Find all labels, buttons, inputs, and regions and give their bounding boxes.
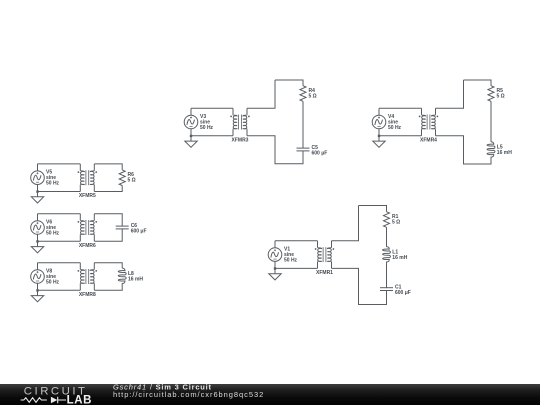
capacitor C1 bbox=[380, 288, 393, 291]
svg-text:XFMR8: XFMR8 bbox=[79, 292, 96, 298]
wire secondary bottom bbox=[94, 285, 122, 291]
wire primary bottom bbox=[38, 289, 81, 291]
voltage source V4 bbox=[372, 108, 386, 137]
svg-text:http://circuitlab.com/cxr6bng8: http://circuitlab.com/cxr6bng8qc532 bbox=[113, 390, 264, 399]
wire primary top bbox=[275, 240, 318, 242]
svg-text:LAB: LAB bbox=[67, 394, 92, 405]
wire secondary top stub bbox=[247, 80, 275, 108]
resistor R6 bbox=[119, 170, 125, 186]
svg-text:5 Ω: 5 Ω bbox=[309, 94, 317, 100]
voltage source V3 bbox=[184, 108, 198, 137]
svg-text:XFMR6: XFMR6 bbox=[79, 243, 96, 249]
svg-text:50 Hz: 50 Hz bbox=[284, 258, 298, 264]
svg-text:5 Ω: 5 Ω bbox=[392, 220, 400, 226]
inductor L5 bbox=[487, 142, 495, 159]
wire primary bottom bbox=[38, 240, 81, 242]
svg-text:16 mH: 16 mH bbox=[128, 277, 143, 283]
wire loop bottom bbox=[247, 136, 303, 164]
svg-text:5 Ω: 5 Ω bbox=[128, 178, 136, 184]
wire secondary bottom bbox=[94, 186, 122, 192]
wire loop top bbox=[464, 80, 492, 86]
inductor L8 bbox=[118, 268, 126, 285]
svg-text:16 mH: 16 mH bbox=[497, 150, 512, 156]
wire loop top bbox=[359, 206, 387, 212]
svg-text:XFMR1: XFMR1 bbox=[316, 270, 333, 276]
voltage source V6 bbox=[31, 214, 45, 243]
wire primary bottom bbox=[275, 267, 318, 269]
footer background bbox=[0, 384, 540, 405]
svg-text:600 μF: 600 μF bbox=[312, 150, 328, 156]
svg-text:XFMR5: XFMR5 bbox=[79, 193, 96, 199]
transformer XFMR6 bbox=[78, 214, 98, 242]
svg-text:XFMR3: XFMR3 bbox=[232, 138, 249, 144]
wire secondary loop bbox=[94, 263, 122, 269]
transformer XFMR3 bbox=[230, 108, 250, 136]
resistor R4 bbox=[300, 86, 306, 102]
wire secondary loop bbox=[94, 164, 122, 170]
wire primary top bbox=[38, 163, 81, 165]
logo diode bbox=[51, 397, 58, 404]
ground below V4 bbox=[373, 136, 385, 148]
capacitor C5 bbox=[297, 148, 310, 151]
wire secondary top stub bbox=[332, 206, 359, 241]
capacitor C6 bbox=[116, 226, 129, 229]
transformer XFMR8 bbox=[78, 263, 98, 291]
ground below V5 bbox=[31, 192, 43, 204]
svg-text:50 Hz: 50 Hz bbox=[46, 280, 60, 286]
svg-text:5 Ω: 5 Ω bbox=[497, 94, 505, 100]
wire secondary bottom bbox=[94, 229, 122, 241]
transformer XFMR1 bbox=[315, 241, 335, 269]
svg-text:600 μF: 600 μF bbox=[131, 228, 147, 234]
svg-text:16 mH: 16 mH bbox=[392, 255, 407, 261]
inductor L1 bbox=[383, 247, 391, 264]
svg-text:600 μF: 600 μF bbox=[395, 290, 411, 296]
transformer XFMR4 bbox=[419, 108, 439, 136]
ground below V6 bbox=[31, 241, 43, 253]
wire R1 to L1 bbox=[386, 227, 388, 247]
wire L1 to C1 bbox=[386, 263, 388, 288]
voltage source V8 bbox=[31, 263, 45, 292]
resistor R1 bbox=[384, 212, 390, 228]
logo resistor zigzag bbox=[21, 398, 47, 403]
wire secondary top stub bbox=[436, 80, 464, 108]
wire R4 to C5 bbox=[302, 101, 304, 148]
wire primary top bbox=[379, 107, 422, 109]
wire primary bottom bbox=[379, 135, 422, 137]
ground below V3 bbox=[185, 136, 197, 148]
transformer XFMR5 bbox=[78, 164, 98, 192]
voltage source V5 bbox=[31, 164, 45, 193]
svg-text:50 Hz: 50 Hz bbox=[200, 125, 214, 131]
wire secondary loop bbox=[94, 214, 122, 226]
svg-text:XFMR4: XFMR4 bbox=[420, 138, 437, 144]
wire primary top bbox=[38, 213, 81, 215]
wire loop bottom bbox=[436, 136, 492, 164]
svg-text:50 Hz: 50 Hz bbox=[46, 231, 60, 237]
wire primary top bbox=[38, 262, 81, 264]
wire primary top bbox=[191, 107, 233, 109]
voltage source V1 bbox=[268, 241, 282, 270]
wire loop bottom bbox=[332, 268, 387, 304]
wire loop top bbox=[275, 80, 303, 86]
ground below V8 bbox=[31, 290, 43, 302]
resistor R5 bbox=[488, 86, 494, 102]
svg-text:50 Hz: 50 Hz bbox=[388, 125, 402, 131]
wire R5 to L5 bbox=[490, 101, 492, 142]
wire primary bottom bbox=[38, 191, 81, 193]
svg-text:50 Hz: 50 Hz bbox=[46, 181, 60, 187]
ground below V1 bbox=[269, 268, 281, 280]
wire primary bottom bbox=[191, 135, 233, 137]
